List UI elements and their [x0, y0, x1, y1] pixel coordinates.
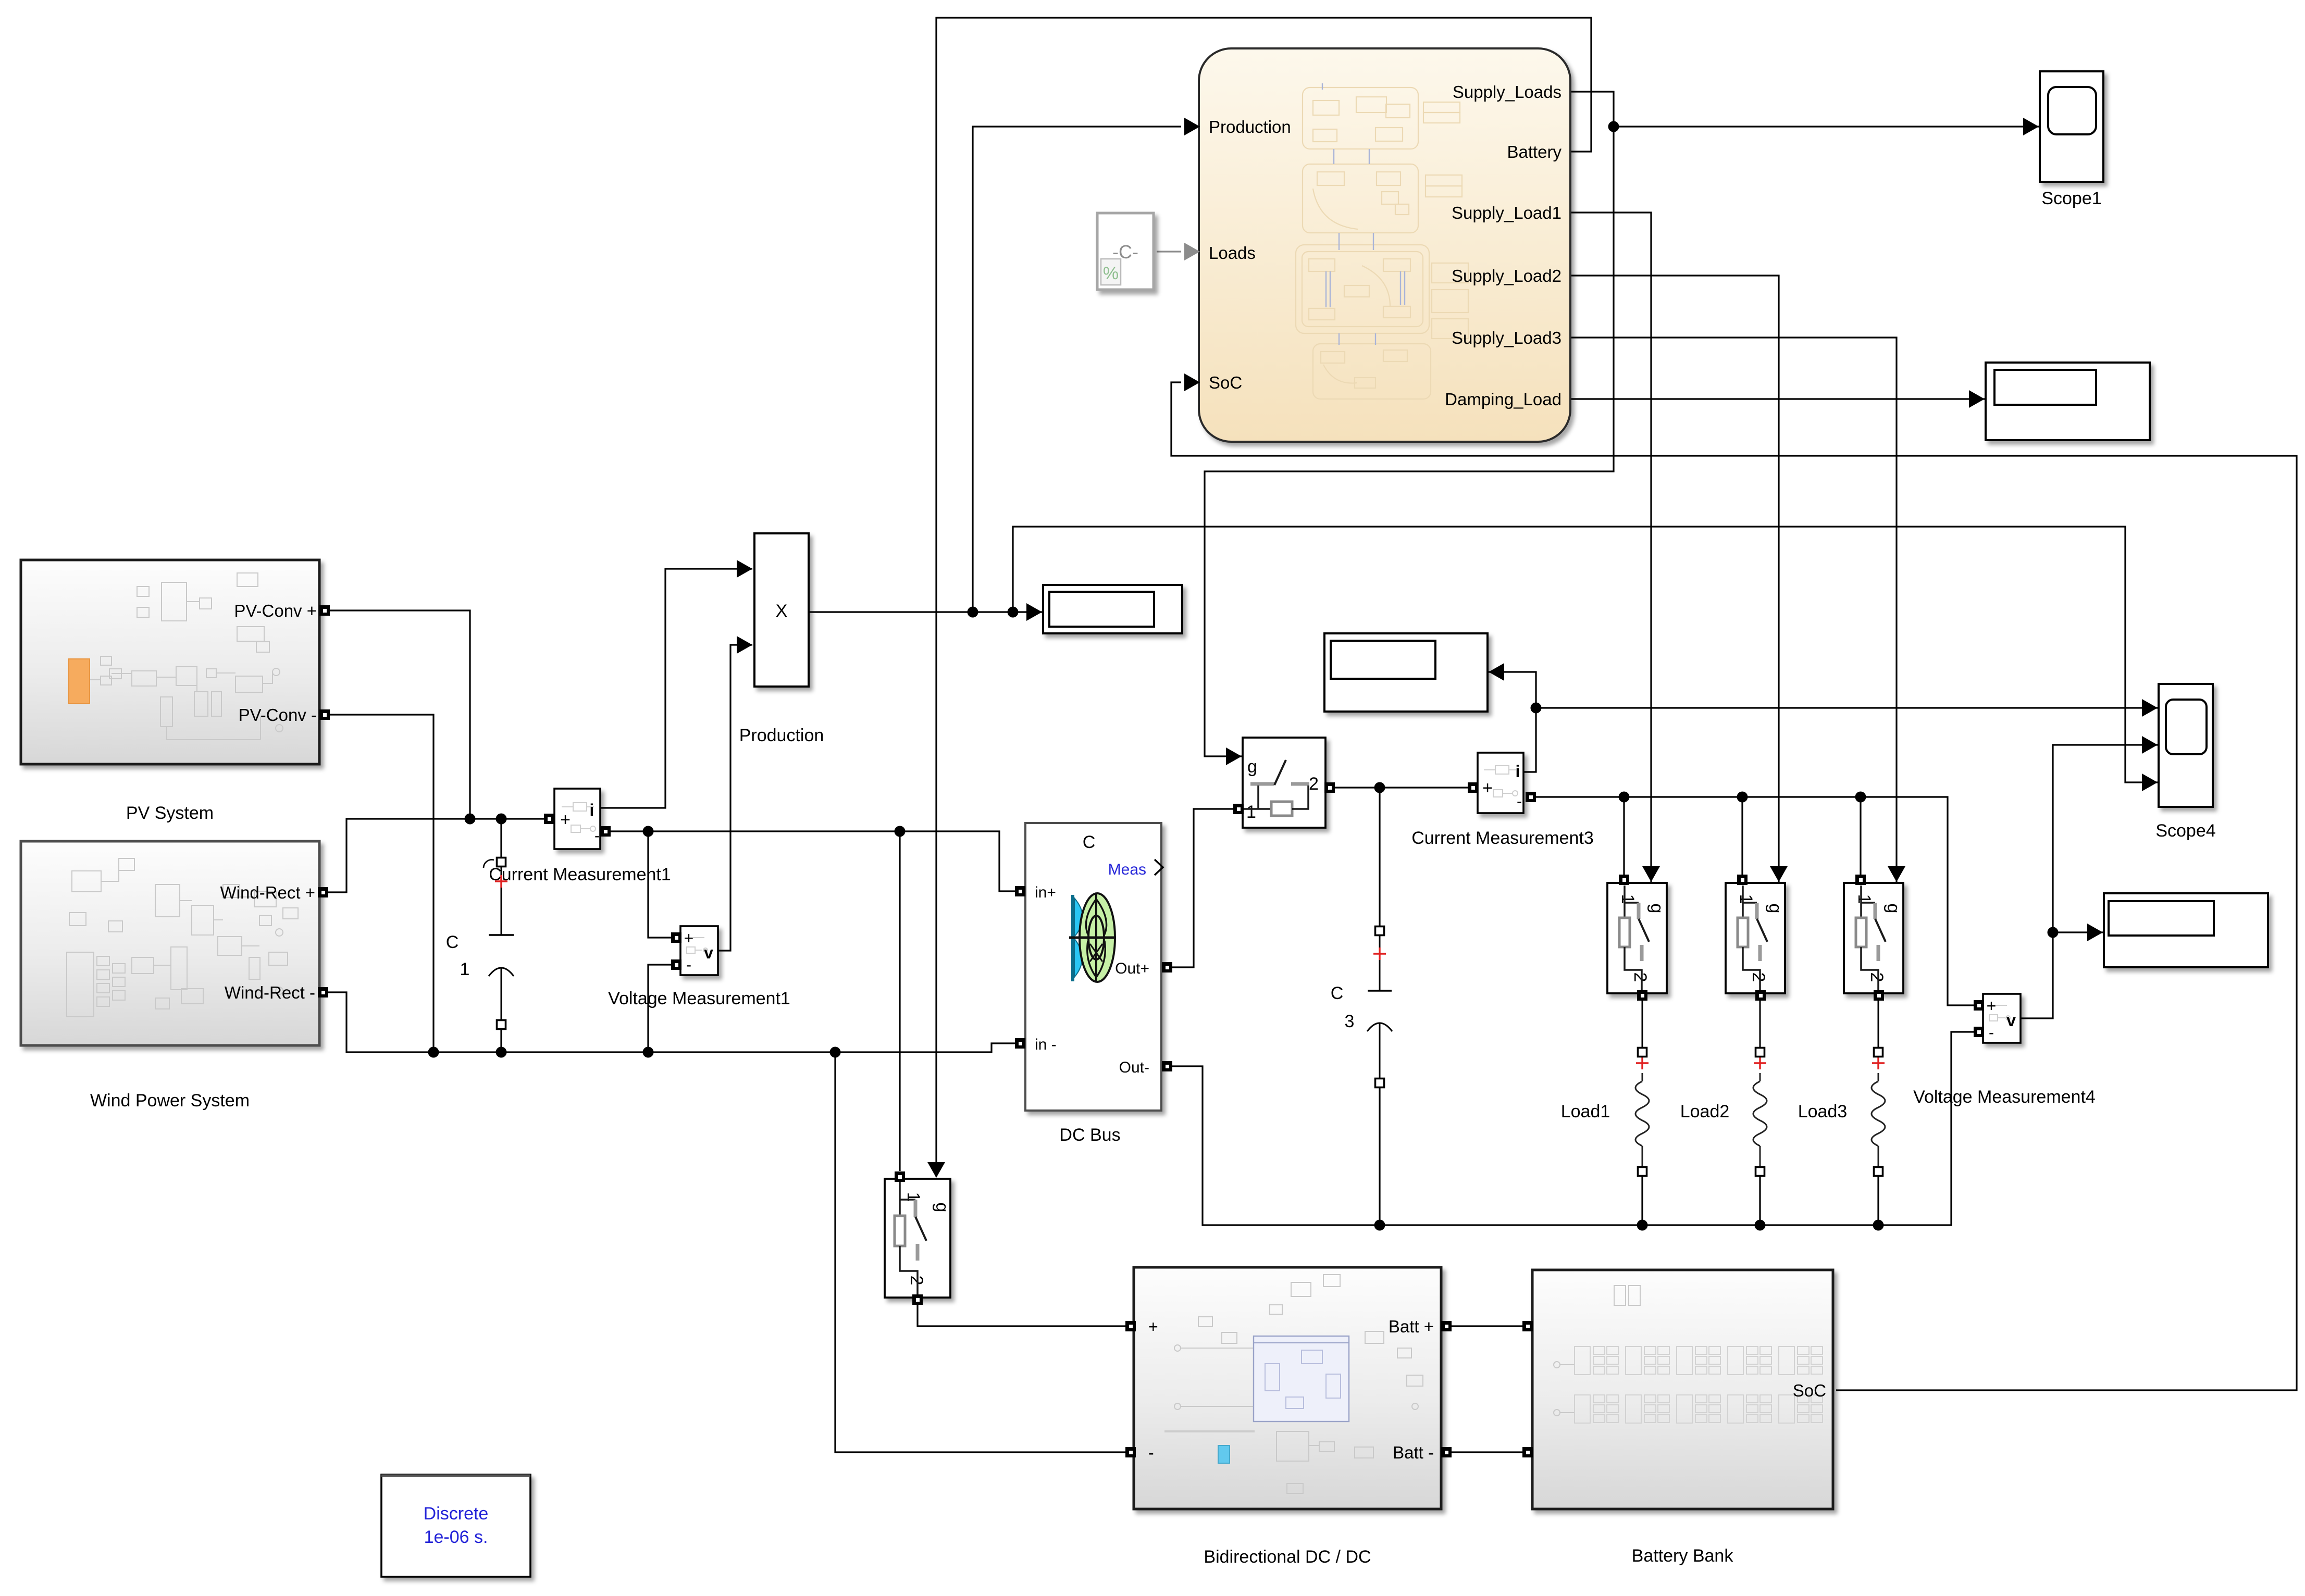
- svg-text:Production: Production: [1209, 117, 1291, 136]
- port Breaker3 port 2: [1874, 990, 1884, 1001]
- display Display1 (Damping_Load): [1986, 363, 2150, 440]
- svg-text:-: -: [594, 827, 600, 844]
- svg-text:2: 2: [1749, 972, 1768, 982]
- port Voltage Measurement4 - input: [1974, 1027, 1984, 1037]
- svg-text:-: -: [686, 956, 691, 974]
- port C1 bottom: [497, 1020, 506, 1029]
- product block Production (X): [754, 533, 809, 687]
- pin DC Bus Meas output chevron: [1155, 859, 1163, 875]
- svg-text:DC Bus: DC Bus: [1059, 1125, 1120, 1145]
- svg-text:Discrete: Discrete: [424, 1504, 489, 1524]
- svg-text:Load3: Load3: [1798, 1102, 1848, 1121]
- svg-text:+: +: [1987, 996, 1997, 1015]
- port Breaker2 port 2: [1755, 990, 1766, 1001]
- port DC/DC - input: [1125, 1447, 1136, 1457]
- subsystem Battery Bank: [1532, 1270, 1833, 1509]
- svg-text:Scope4: Scope4: [2155, 821, 2215, 841]
- display Display2 (bus current): [1324, 633, 1488, 712]
- port Wind-Rect - output: [318, 987, 328, 997]
- svg-text:Battery: Battery: [1507, 142, 1562, 161]
- svg-text:1: 1: [460, 959, 470, 979]
- port C3 top: [1375, 927, 1384, 936]
- wire net loads DC+ bus (CM3 - to breakers 1 and Voltage Measurement4 +): [1531, 792, 1979, 1006]
- label C1 polarity +: [495, 875, 507, 888]
- capacitor C1: [446, 859, 514, 1020]
- port Battery Bank + input: [1522, 1321, 1533, 1331]
- chart block U_EMS (energy management state chart): [1199, 48, 1570, 442]
- wire signal Damping_Load to Display1: [1571, 390, 1985, 408]
- svg-text:i: i: [590, 801, 594, 819]
- svg-text:2: 2: [1867, 972, 1887, 982]
- svg-text:i: i: [1516, 762, 1520, 781]
- svg-text:SoC: SoC: [1209, 373, 1242, 392]
- svg-text:SoC: SoC: [1793, 1381, 1826, 1400]
- resistor Load1: [1635, 1000, 1649, 1167]
- wire net C3 to return bus: [1379, 1083, 1380, 1225]
- svg-text:Meas: Meas: [1108, 861, 1146, 878]
- svg-text:Scope1: Scope1: [2041, 189, 2101, 208]
- breaker main (DC bus to loads): [1243, 738, 1325, 828]
- wire signal Constant -C- to chart Loads: [1157, 251, 1181, 252]
- svg-text:Supply_Load2: Supply_Load2: [1452, 266, 1562, 285]
- port Voltage Measurement4 + input: [1974, 1000, 1984, 1011]
- breaker Breaker3 (Load3): [1844, 883, 1903, 993]
- svg-text:Battery Bank: Battery Bank: [1632, 1546, 1734, 1566]
- svg-text:C: C: [1083, 832, 1096, 852]
- svg-text:2: 2: [1630, 972, 1650, 982]
- wire signal SoC feedback (Battery Bank SoC to chart SoC): [1171, 382, 2297, 1390]
- svg-text:g: g: [1765, 904, 1785, 914]
- svg-text:v: v: [2006, 1011, 2016, 1030]
- svg-text:Load2: Load2: [1680, 1102, 1730, 1121]
- resistor Load2: [1753, 1000, 1767, 1167]
- wire signal Voltage Measurement1 v to Production X in2: [717, 636, 752, 951]
- wire net Batt- (DC/DC Batt- to Battery Bank -): [1446, 1451, 1528, 1453]
- port Voltage Measurement1 - input: [671, 959, 681, 970]
- svg-text:Supply_Load3: Supply_Load3: [1452, 328, 1562, 347]
- svg-text:Load1: Load1: [1561, 1102, 1610, 1121]
- DC/DC inner converter preview (lavender): [1254, 1336, 1349, 1422]
- scope Scope1: [2040, 71, 2103, 208]
- svg-text:%: %: [1103, 264, 1119, 283]
- svg-text:Out+: Out+: [1115, 960, 1149, 977]
- svg-text:Damping_Load: Damping_Load: [1445, 390, 1562, 409]
- powergui Discrete 1e-06 s.: [381, 1475, 530, 1577]
- svg-text:+: +: [684, 929, 694, 947]
- breaker Breaker2 (Load2): [1726, 883, 1785, 993]
- svg-text:C: C: [1331, 983, 1344, 1003]
- wire signal Production (X out) to Display/chart Production/Scope4: [809, 127, 2158, 791]
- port DC/DC Batt+ output: [1441, 1321, 1452, 1331]
- port PV-Conv + output: [319, 605, 330, 616]
- svg-text:Bidirectional DC / DC: Bidirectional DC / DC: [1204, 1547, 1371, 1567]
- wire signal Supply_Load3 to Breaker3 g: [1571, 338, 1905, 882]
- port Breaker1 port 2: [1637, 990, 1647, 1001]
- wire signal Battery to battery Breaker g: [927, 18, 1591, 1178]
- svg-text:3: 3: [1345, 1012, 1355, 1031]
- svg-text:Batt +: Batt +: [1389, 1317, 1434, 1336]
- pin chart Production input arrow: [1184, 118, 1200, 135]
- subsystem PV System: [21, 560, 319, 764]
- svg-text:Loads: Loads: [1209, 243, 1256, 263]
- svg-text:Voltage Measurement4: Voltage Measurement4: [1913, 1087, 2096, 1107]
- wire signal Current Measurement1 i to Production X in1: [599, 560, 752, 808]
- svg-text:Voltage Measurement1: Voltage Measurement1: [608, 989, 790, 1008]
- svg-text:in+: in+: [1035, 884, 1056, 901]
- svg-text:Wind-Rect -: Wind-Rect -: [225, 983, 315, 1002]
- svg-text:+: +: [1482, 778, 1493, 798]
- subsystem DC Bus: [381, 633, 2268, 1577]
- svg-text:-: -: [1148, 1443, 1154, 1462]
- wire net Batt+ (DC/DC Batt+ to Battery Bank +): [1446, 1325, 1528, 1327]
- svg-text:Wind-Rect +: Wind-Rect +: [220, 883, 315, 902]
- svg-text:g: g: [1647, 904, 1667, 914]
- port Breaker1 port 1: [1619, 875, 1629, 885]
- port DC Bus Out+: [1162, 962, 1172, 972]
- subsystem Wind Power System: [21, 841, 319, 1045]
- svg-text:-: -: [1989, 1024, 1994, 1041]
- PV source icon (orange): [69, 659, 90, 704]
- label C3 polarity +: [1373, 947, 1386, 960]
- svg-text:Batt -: Batt -: [1393, 1443, 1434, 1462]
- svg-text:Production: Production: [739, 726, 824, 745]
- port DC Bus in+: [1015, 886, 1025, 896]
- scope Scope4: [2155, 684, 2215, 841]
- breaker battery Breaker: [885, 1179, 952, 1298]
- svg-text:Current Measurement3: Current Measurement3: [1411, 828, 1594, 848]
- svg-text:in -: in -: [1035, 1036, 1057, 1053]
- wire signal Supply_Load2 to Breaker2 g: [1571, 276, 1788, 882]
- svg-text:PV-Conv +: PV-Conv +: [234, 601, 317, 620]
- wire signal Voltage Measurement4 v to Scope4 in2 and Display4: [2019, 736, 2158, 1018]
- svg-text:PV System: PV System: [126, 803, 214, 823]
- svg-text:X: X: [776, 601, 788, 621]
- port Current Measurement1 - output: [600, 826, 611, 837]
- svg-text:g: g: [932, 1203, 952, 1213]
- port battery Breaker port 2: [912, 1294, 923, 1305]
- port Voltage Measurement1 + input: [671, 932, 681, 943]
- port Breaker main port 1: [1233, 804, 1244, 814]
- svg-text:+: +: [560, 810, 571, 830]
- sensor Current Measurement1: [554, 789, 600, 849]
- svg-text:Supply_Loads: Supply_Loads: [1453, 82, 1562, 102]
- wire net DC+ after CM1 (to DC Bus in+, Voltage Measurement1 +, battery Breaker 1): [605, 826, 1016, 1171]
- svg-text:g: g: [1883, 904, 1903, 914]
- port Current Measurement1 + input: [544, 814, 554, 824]
- port Current Measurement3 + input: [1468, 782, 1478, 793]
- sensor Voltage Measurement4: [1983, 994, 2021, 1043]
- pin chart Loads input arrow (gray): [1184, 243, 1200, 260]
- wire net Breaker 2 to Current Measurement3 + with C3 branch: [1330, 782, 1473, 931]
- subsystem Bidirectional DC / DC: [1134, 1267, 1441, 1509]
- port Battery Bank - input: [1522, 1447, 1533, 1457]
- svg-text:2: 2: [1309, 774, 1319, 794]
- svg-text:PV-Conv -: PV-Conv -: [239, 705, 317, 725]
- wire signal Supply_Loads to Scope1 and Breaker g: [1205, 92, 2039, 765]
- svg-text:1e-06 s.: 1e-06 s.: [424, 1527, 488, 1547]
- port DC Bus Out-: [1162, 1061, 1172, 1071]
- svg-text:+: +: [1148, 1317, 1158, 1336]
- wire signal Current Measurement3 i to Display2 and Scope4 in1: [1489, 663, 2158, 772]
- svg-text:g: g: [1247, 757, 1257, 777]
- sensor Current Measurement3: [1478, 753, 1523, 813]
- port battery Breaker port 1: [895, 1171, 905, 1182]
- constant block -C- (Loads profile): [1097, 213, 1154, 290]
- wire net loads return bus (DC Bus Out- to loads and Voltage Measurement4 -): [1167, 1032, 1979, 1231]
- port C3 bottom: [1375, 1079, 1384, 1088]
- svg-text:Supply_Load1: Supply_Load1: [1452, 203, 1562, 222]
- port DC/DC + input: [1125, 1321, 1136, 1331]
- svg-text:-: -: [1517, 793, 1522, 810]
- port C1 top: [497, 858, 506, 867]
- svg-text:C: C: [446, 932, 459, 952]
- pin chart SoC input arrow: [1184, 373, 1200, 391]
- port Current Measurement3 - output: [1526, 792, 1536, 802]
- port Wind-Rect + output: [318, 887, 328, 897]
- svg-text:v: v: [704, 943, 713, 962]
- display Display4 (bus voltage): [2104, 893, 2268, 967]
- port DC Bus in-: [1015, 1038, 1025, 1049]
- wire net DC+ bus (PV-Conv+/Wind-Rect+ to Current Measurement1 +): [323, 610, 549, 892]
- svg-text:Out-: Out-: [1119, 1059, 1149, 1076]
- DC Bus fan icon: [1069, 893, 1116, 982]
- port Breaker main port 2: [1324, 782, 1335, 793]
- capacitor C3: [1331, 935, 1392, 1079]
- port PV-Conv - output: [319, 709, 330, 720]
- wire signal Supply_Load1 to Breaker1 g: [1571, 213, 1660, 882]
- wire net DC- bus (PV-Conv-/Wind-Rect- to DC Bus in- and DC/DC -): [323, 715, 1129, 1452]
- resistor Load3: [1872, 1000, 1885, 1167]
- svg-text:1: 1: [1246, 802, 1256, 822]
- wire net DC Bus Out+ to Breaker 1: [1167, 809, 1236, 967]
- svg-text:Wind Power System: Wind Power System: [90, 1091, 250, 1111]
- svg-text:2: 2: [907, 1276, 926, 1286]
- sensor Voltage Measurement1: [680, 926, 718, 975]
- breaker Breaker1 (Load1): [1607, 883, 1667, 993]
- port Breaker2 port 1: [1737, 875, 1748, 885]
- svg-text:Current Measurement1: Current Measurement1: [489, 865, 671, 884]
- wire net battery Breaker 2 to Bidirectional DC/DC +: [918, 1302, 1129, 1326]
- display Display (Production): [1043, 585, 1182, 633]
- port DC/DC Batt- output: [1441, 1447, 1452, 1457]
- port Breaker3 port 1: [1855, 875, 1866, 885]
